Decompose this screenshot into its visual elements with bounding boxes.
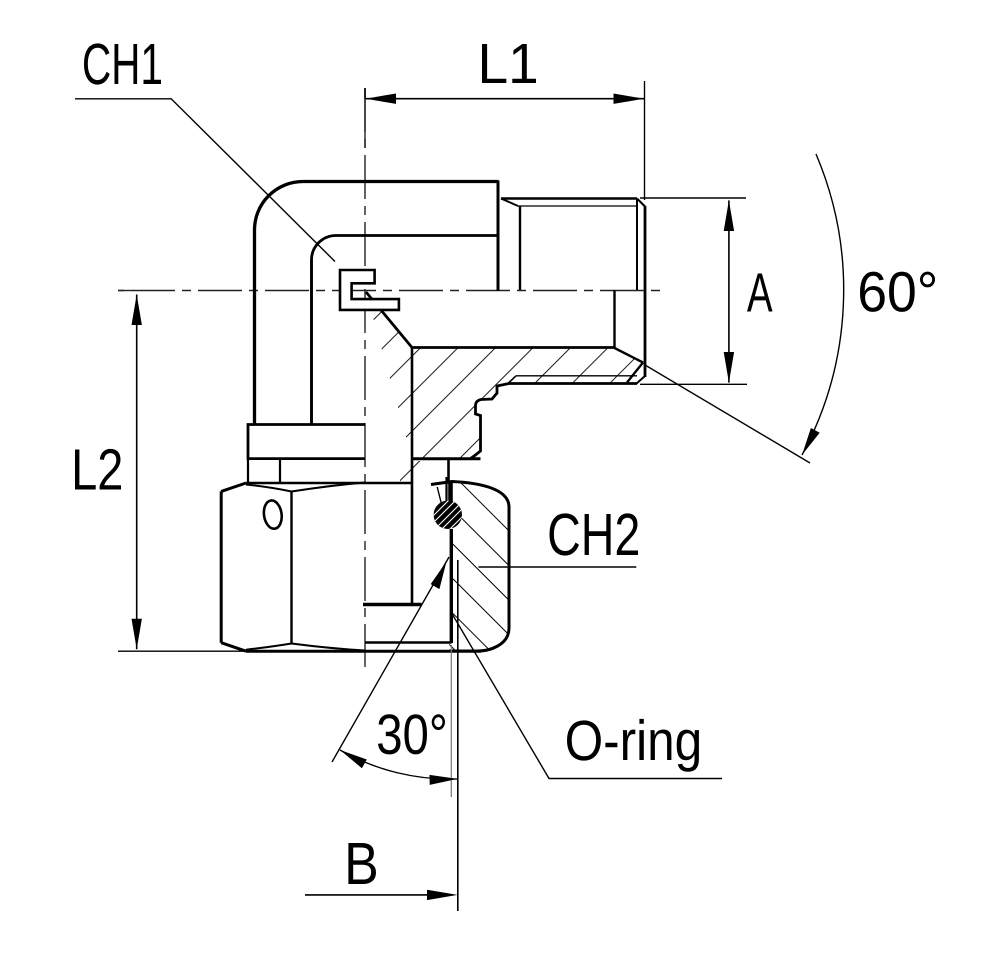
bore wall vertical — [411, 348, 414, 604]
bottom-left chamfer — [221, 643, 246, 652]
vertical branch tube + flange — [248, 229, 365, 483]
thread crest bottom — [508, 382, 637, 385]
nose chamfer diag top — [637, 199, 645, 207]
vertical axis centerline — [364, 88, 366, 667]
section: bore bottom — [412, 346, 615, 349]
nut right section outline — [365, 477, 509, 651]
nose chamfer line — [636, 199, 638, 291]
dimension A — [640, 198, 747, 384]
nut bore bottom edge (section) — [365, 641, 452, 644]
chamfer diagonal top — [501, 199, 518, 207]
thread crest top — [501, 197, 637, 200]
neck left — [247, 459, 249, 482]
dimension L2 — [118, 295, 246, 652]
top chamfer arcs — [246, 483, 365, 492]
body hatch region — [366, 292, 643, 459]
30 deg callout — [332, 557, 458, 779]
thread root top — [518, 205, 637, 207]
stud end face — [644, 206, 647, 377]
CH1 label — [75, 99, 335, 262]
CH2 label — [479, 566, 637, 568]
bottom chamfer arcs — [246, 644, 365, 651]
runout bottom diag — [508, 376, 516, 384]
staircase chamfer triangles — [492, 393, 498, 399]
inner wall — [445, 477, 447, 505]
bottom chamfer diag — [637, 376, 646, 384]
thread root bottom — [516, 375, 637, 377]
dimension B — [305, 560, 458, 911]
elbow body outline — [255, 182, 499, 425]
body end face — [497, 181, 500, 292]
section: cone line — [615, 348, 644, 363]
groove wall — [447, 459, 450, 481]
hex edge — [290, 492, 292, 644]
section: cone runout vertical — [613, 290, 615, 348]
horizontal axis centerline — [118, 290, 664, 292]
section: transition diagonal — [366, 292, 412, 348]
dimension L1 — [365, 81, 645, 200]
bottom edge — [246, 650, 481, 653]
solid lead-in segments — [364, 88, 366, 148]
E stamp symbol — [340, 270, 399, 310]
tube outer left wall — [253, 229, 256, 425]
inner contour — [312, 236, 498, 425]
O-ring — [430, 490, 466, 538]
nut external view — [221, 483, 481, 652]
tube inner left wall — [310, 259, 313, 425]
thread runout vertical — [519, 206, 521, 291]
nut seat line — [412, 457, 481, 460]
spigot face — [363, 603, 422, 606]
O-ring label — [451, 612, 722, 779]
outer contour — [255, 182, 499, 425]
O marking — [262, 499, 283, 530]
neck right — [279, 459, 281, 483]
staircase profile — [471, 384, 509, 459]
60 deg callout — [645, 154, 844, 463]
section: face chamfer — [627, 363, 643, 383]
left edge — [220, 491, 223, 642]
top edge — [246, 482, 412, 485]
body hatch sliver at nut seat — [400, 461, 431, 483]
top-left chamfer — [221, 483, 246, 491]
nut right-wall hatch region — [431, 477, 509, 651]
flange — [248, 425, 365, 459]
center lines — [118, 88, 664, 667]
